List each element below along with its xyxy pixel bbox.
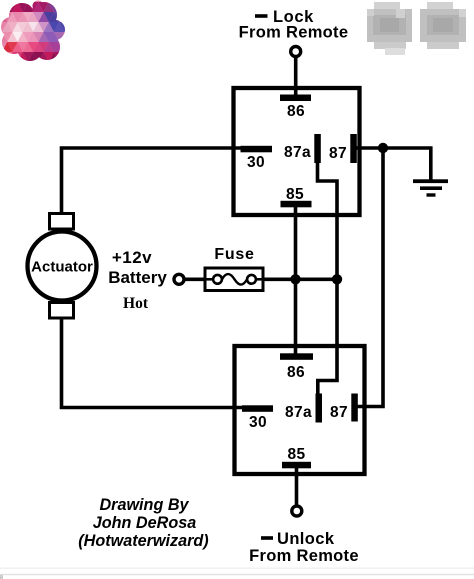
relay K1 pin 30 bar [241,146,273,153]
svg-text:John DeRosa: John DeRosa [93,514,196,532]
fuse F1 [205,268,263,291]
svg-text:Drawing By: Drawing By [99,496,189,514]
relay K2 pin 87 bar [351,394,358,422]
svg-text:87a: 87a [285,404,312,421]
svg-text:Hot: Hot [123,295,149,312]
svg-text:87a: 87a [284,144,311,161]
wire: actuator bottom to relay K2 pin 30 [62,318,245,408]
svg-text:86: 86 [287,103,305,120]
junction dot 1 [290,274,300,284]
relay K1 box [234,88,360,215]
svg-text:85: 85 [287,446,305,463]
svg-text:From Remote: From Remote [239,24,349,42]
terminal circle (lock input) [291,47,301,57]
wire: relay K1 87a to relay K2 87a (stepped) [318,163,338,395]
logo [0,0,72,66]
relay K1 pin 85 bar [281,201,312,208]
svg-text:86: 86 [287,364,305,381]
terminal circle (unlock input) [292,506,302,516]
svg-text:Actuator: Actuator [31,259,93,276]
junction dot 2 [332,274,342,284]
relay K2 pin 85 bar [282,462,311,469]
wire: fuse to junction dots [263,277,339,281]
svg-text:85: 85 [286,186,304,203]
relay K2 pin 86 bar [280,353,313,360]
svg-text:30: 30 [247,154,265,171]
svg-text:Battery: Battery [108,268,167,287]
relay K1 pin 86 bar [280,95,311,102]
wire: actuator top to relay K1 pin 30 [62,148,244,214]
label "- Unlock" [261,536,273,540]
relay K1 pin 87a bar [314,134,321,163]
ground symbol [413,179,448,196]
relay K2 box [235,346,365,474]
svg-text:87: 87 [330,404,348,421]
battery terminal circle [174,274,184,284]
svg-text:Fuse: Fuse [214,246,254,263]
wire: relay K2 85 to unlock terminal [295,468,299,506]
svg-text:Unlock: Unlock [277,530,335,548]
actuator M1 [28,214,97,319]
wire: lock terminal to relay1 pin 86 [294,57,298,97]
wire: relay K1 85 down to relay K2 86 [294,205,298,354]
relay K2 pin 30 bar [242,405,273,412]
svg-text:From Remote: From Remote [249,547,359,565]
bottom separator lines [0,568,474,569]
svg-text:30: 30 [249,414,267,431]
relay K2 pin 87a bar [316,394,323,423]
wire: relay K1 87 to ground junction [355,146,433,150]
label "- Lock" [255,14,268,18]
relay K1 pin 87 bar [350,134,357,163]
wire: junction down to relay K2 87 [357,148,383,407]
wire: battery terminal to fuse [184,277,206,281]
watermark blur block 2 [420,2,466,49]
junction dot (87/ground) [378,143,388,153]
svg-text:+12v: +12v [112,248,152,267]
svg-text:87: 87 [329,145,347,162]
svg-text:(Hotwaterwizard): (Hotwaterwizard) [78,532,208,550]
watermark blur block 1 [367,2,412,55]
wire: ground drop [429,147,433,181]
credit text [78,496,208,550]
